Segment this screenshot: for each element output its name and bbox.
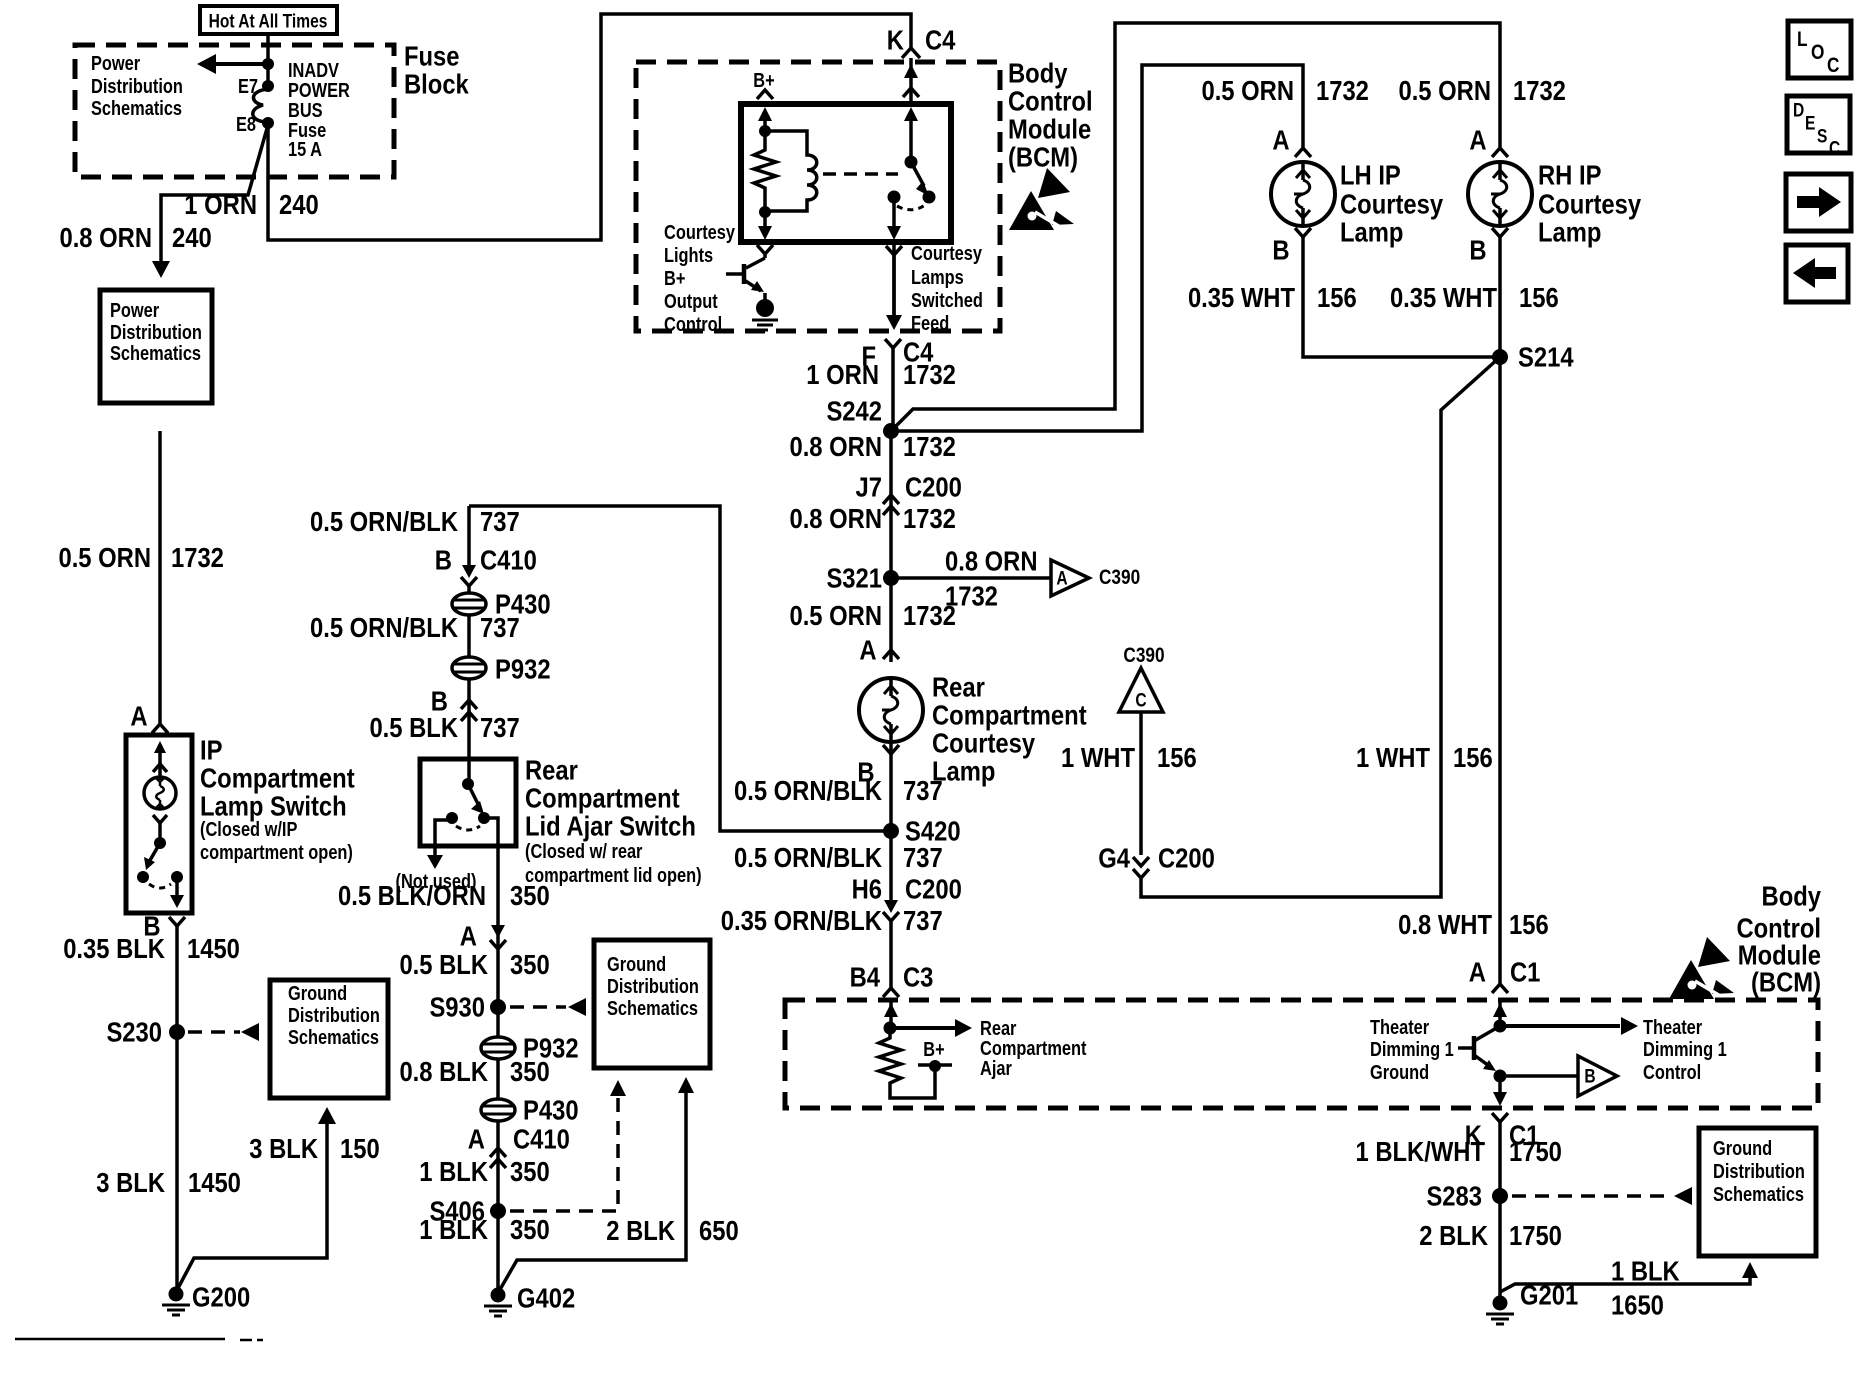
- BCM dashed box (bottom): [785, 1000, 1818, 1108]
- svg-text:C1: C1: [1510, 956, 1540, 988]
- connector B (RH lamp): [1469, 228, 1508, 266]
- svg-text:1732: 1732: [1316, 74, 1369, 106]
- svg-text:1 BLK: 1 BLK: [419, 1213, 488, 1245]
- svg-text:0.5 ORN/BLK: 0.5 ORN/BLK: [310, 505, 458, 537]
- svg-text:3 BLK: 3 BLK: [249, 1132, 318, 1164]
- svg-text:Ground: Ground: [1713, 1137, 1772, 1160]
- wire from Hot At All Times box down to fuse terminal E7: [266, 34, 270, 86]
- node S420: [883, 815, 961, 847]
- relay coil supply wire: [758, 107, 772, 137]
- svg-text:E8: E8: [236, 113, 256, 136]
- svg-text:B+: B+: [923, 1038, 944, 1061]
- wire 0.8 ORN 1732 S242 to J7: [889, 431, 893, 578]
- wire lid switch output: [484, 818, 498, 1007]
- svg-text:C: C: [1135, 689, 1147, 711]
- svg-text:0.5 BLK: 0.5 BLK: [369, 711, 458, 743]
- svg-text:Hot At All Times: Hot At All Times: [209, 10, 328, 32]
- svg-text:0.5 BLK/ORN: 0.5 BLK/ORN: [338, 879, 486, 911]
- svg-text:C390: C390: [1123, 645, 1164, 668]
- svg-text:1 BLK: 1 BLK: [1611, 1255, 1680, 1287]
- label IP Compartment Lamp Switch: [200, 734, 355, 864]
- dashed ref S230 to ground distribution: [188, 1023, 259, 1041]
- label Rear Compartment Courtesy Lamp: [932, 671, 1087, 787]
- node S321: [826, 562, 899, 594]
- svg-text:B: B: [1584, 1065, 1595, 1087]
- button LOC: [1788, 21, 1851, 78]
- svg-text:650: 650: [699, 1214, 739, 1246]
- svg-text:Theater: Theater: [1643, 1016, 1702, 1039]
- svg-text:P430: P430: [523, 1094, 579, 1126]
- svg-text:Lid Ajar Switch: Lid Ajar Switch: [525, 810, 696, 842]
- svg-text:737: 737: [903, 841, 943, 873]
- svg-text:S283: S283: [1426, 1180, 1482, 1212]
- svg-text:B+: B+: [664, 267, 685, 290]
- svg-text:compartment open): compartment open): [200, 841, 353, 864]
- node S283: [1426, 1180, 1508, 1212]
- connector K C4: [887, 24, 956, 58]
- node E7: [238, 75, 274, 98]
- svg-text:350: 350: [510, 1155, 550, 1187]
- svg-text:0.35 WHT: 0.35 WHT: [1188, 281, 1295, 313]
- svg-text:B+: B+: [753, 69, 774, 92]
- node S406: [429, 1195, 506, 1227]
- wire 1 BLK 1650: [1500, 1262, 1758, 1292]
- svg-text:Power: Power: [110, 299, 159, 322]
- relay switch blade: [911, 162, 936, 204]
- button next arrow: [1786, 174, 1851, 231]
- svg-text:G4: G4: [1098, 842, 1130, 874]
- node S242: [826, 395, 899, 439]
- label Courtesy Lights B+ Output Control: [664, 221, 736, 336]
- svg-text:A: A: [1469, 124, 1486, 156]
- connector A (LH lamp): [1272, 124, 1311, 157]
- ground G402: [484, 1282, 575, 1316]
- box Ground Distribution Schematics (right): [1699, 1128, 1816, 1256]
- dashed ref S930 to ground distribution: [510, 998, 586, 1016]
- wire LH lamp B to S214: [1303, 237, 1500, 357]
- IP switch contacts: [137, 815, 184, 908]
- wire relay switched output segment: [892, 242, 896, 318]
- svg-text:Schematics: Schematics: [110, 342, 201, 365]
- label Body Control Module (BCM) (bottom right): [1736, 880, 1821, 998]
- note Power Distribution Schematics (in fuse block): [91, 52, 183, 120]
- svg-text:Schematics: Schematics: [607, 997, 698, 1020]
- node E8: [236, 113, 274, 136]
- wire 1 ORN 240 from fuse E8 to BCM connector C4 pin K: [268, 14, 911, 240]
- connector B (IP lamp switch): [143, 910, 185, 1032]
- svg-text:1732: 1732: [903, 502, 956, 534]
- button prev arrow: [1786, 245, 1848, 302]
- svg-text:1 BLK/WHT: 1 BLK/WHT: [1356, 1135, 1486, 1167]
- svg-text:156: 156: [1317, 281, 1357, 313]
- wire switched feed to connector F C4: [886, 246, 902, 330]
- wire 1 WHT 156 from C390 to G4 C200: [1139, 712, 1143, 855]
- connector A (RH lamp): [1469, 124, 1508, 157]
- label INADV POWER BUS Fuse 15 A: [288, 59, 350, 161]
- node S930: [429, 991, 506, 1023]
- svg-text:0.8 BLK: 0.8 BLK: [399, 1055, 488, 1087]
- wire 1 BLK 350 to G402: [496, 1211, 500, 1295]
- svg-text:A: A: [130, 700, 147, 732]
- resistor (rear ajar pull-up): [879, 1028, 935, 1098]
- svg-text:C4: C4: [925, 24, 956, 56]
- svg-text:S930: S930: [429, 991, 485, 1023]
- svg-text:1450: 1450: [188, 1166, 241, 1198]
- transistor Q output control: [726, 245, 778, 330]
- svg-text:S: S: [1817, 125, 1827, 147]
- connector A (rear lamp): [859, 578, 899, 666]
- svg-text:G201: G201: [1520, 1279, 1578, 1311]
- svg-text:1750: 1750: [1509, 1219, 1562, 1251]
- svg-text:Distribution: Distribution: [110, 321, 202, 344]
- relay coil lower node: [758, 206, 772, 240]
- svg-text:Schematics: Schematics: [1713, 1183, 1804, 1206]
- svg-text:0.5 ORN: 0.5 ORN: [58, 541, 151, 573]
- svg-text:1732: 1732: [903, 358, 956, 390]
- wire S242 to LH IP courtesy lamp (0.5 ORN 1732): [891, 65, 1303, 431]
- svg-text:0.35 ORN/BLK: 0.35 ORN/BLK: [721, 904, 882, 936]
- svg-text:156: 156: [1453, 741, 1493, 773]
- svg-text:B4: B4: [850, 961, 881, 993]
- svg-text:0.8 ORN: 0.8 ORN: [945, 545, 1038, 577]
- lamp RH IP Courtesy Lamp: [1468, 162, 1532, 226]
- arrow Rear Compartment Ajar: [890, 1019, 972, 1037]
- svg-text:C: C: [1829, 137, 1841, 159]
- svg-text:3 BLK: 3 BLK: [96, 1166, 165, 1198]
- svg-text:15 A: 15 A: [288, 138, 322, 161]
- svg-text:156: 156: [1157, 741, 1197, 773]
- dashed ref S406 to ground distribution: [510, 1080, 626, 1211]
- svg-text:350: 350: [510, 1213, 550, 1245]
- svg-text:1732: 1732: [171, 541, 224, 573]
- svg-text:B: B: [1469, 234, 1486, 266]
- svg-text:156: 156: [1509, 908, 1549, 940]
- svg-text:240: 240: [279, 188, 319, 220]
- svg-text:2 BLK: 2 BLK: [1419, 1219, 1488, 1251]
- node theater dimming: [1494, 1020, 1507, 1033]
- box Power Distribution Schematics: [100, 290, 212, 403]
- svg-text:G200: G200: [192, 1281, 250, 1313]
- relay switched output: [887, 197, 901, 240]
- connector B4 C3: [850, 961, 934, 997]
- relay resistor: [754, 131, 776, 212]
- svg-text:A: A: [468, 1123, 485, 1155]
- grommet P932: [452, 615, 551, 685]
- svg-text:S214: S214: [1518, 341, 1574, 373]
- label Courtesy Lamps Switched Feed: [911, 242, 983, 335]
- svg-text:Control: Control: [1643, 1061, 1701, 1084]
- svg-text:Dimming 1: Dimming 1: [1643, 1038, 1727, 1061]
- connector ref triangle A C390: [1051, 560, 1140, 596]
- svg-text:O: O: [1811, 42, 1824, 65]
- svg-text:Power: Power: [91, 52, 140, 75]
- svg-text:Control: Control: [664, 313, 722, 336]
- label 0.8 ORN / 1732: [945, 545, 1038, 612]
- svg-text:Ground: Ground: [1370, 1061, 1429, 1084]
- svg-text:1 ORN: 1 ORN: [806, 358, 879, 390]
- switch box Rear Compartment Lid Ajar Switch: [420, 759, 516, 846]
- svg-text:S242: S242: [826, 395, 882, 427]
- connector B (rear lamp): [857, 742, 899, 831]
- svg-text:(BCM): (BCM): [1751, 966, 1821, 998]
- svg-text:0.5 ORN/BLK: 0.5 ORN/BLK: [734, 774, 882, 806]
- svg-text:C200: C200: [905, 873, 962, 905]
- label 1 BLK 1650: [1611, 1255, 1680, 1321]
- label Fuse Block: [404, 40, 469, 100]
- wire 1 WHT 156 from G4 to S214: [1141, 357, 1500, 897]
- svg-text:H6: H6: [852, 873, 882, 905]
- connector F C4: [861, 336, 933, 431]
- svg-text:Distribution: Distribution: [607, 975, 699, 998]
- switch box IP Compartment Lamp Switch: [126, 735, 192, 913]
- svg-text:Lamp: Lamp: [1538, 216, 1601, 248]
- svg-text:A: A: [1272, 124, 1289, 156]
- wire 2 BLK 1750 to G201: [1498, 1196, 1502, 1303]
- connector B C410: [435, 506, 537, 586]
- svg-text:1732: 1732: [903, 430, 956, 462]
- svg-text:S230: S230: [106, 1016, 162, 1048]
- svg-text:C410: C410: [480, 544, 537, 576]
- wire 0.5 ORN 1732 left branch: [158, 431, 162, 723]
- wire 0.5 ORN/BLK 737 from lid switch loop to S420: [469, 506, 891, 831]
- svg-text:0.5 BLK: 0.5 BLK: [399, 948, 488, 980]
- relay coil: [765, 131, 817, 211]
- svg-text:1732: 1732: [903, 599, 956, 631]
- svg-text:156: 156: [1519, 281, 1559, 313]
- svg-text:Distribution: Distribution: [91, 75, 183, 98]
- grommet P932 (lower): [481, 1007, 579, 1064]
- svg-text:1450: 1450: [187, 932, 240, 964]
- svg-text:0.8 ORN: 0.8 ORN: [789, 502, 882, 534]
- arrow Theater Dimming 1 Control: [1500, 1017, 1638, 1035]
- lamp LH IP Courtesy Lamp: [1271, 162, 1335, 226]
- svg-text:1750: 1750: [1509, 1135, 1562, 1167]
- svg-text:A: A: [1056, 567, 1068, 589]
- svg-text:C200: C200: [905, 471, 962, 503]
- svg-text:(BCM): (BCM): [1008, 141, 1078, 173]
- wire 2 BLK 650: [498, 1077, 694, 1293]
- svg-text:Block: Block: [404, 68, 469, 100]
- button DESC: [1787, 96, 1850, 159]
- ESD symbol (bottom): [1669, 937, 1734, 999]
- wire B4 into BCM: [884, 998, 898, 1028]
- svg-text:Schematics: Schematics: [288, 1026, 379, 1049]
- connector B (LH lamp): [1272, 228, 1311, 266]
- svg-text:RH IP: RH IP: [1538, 159, 1601, 191]
- relay switch feed: [904, 107, 918, 169]
- label Rear Compartment Ajar: [980, 1017, 1086, 1080]
- Body Control Module (BCM) dashed box: [636, 62, 1000, 331]
- box Ground Distribution Schematics (middle): [594, 940, 710, 1068]
- dashed ref S283 to ground distribution: [1512, 1187, 1692, 1205]
- svg-text:0.5 ORN: 0.5 ORN: [1398, 74, 1491, 106]
- svg-text:0.5 ORN/BLK: 0.5 ORN/BLK: [734, 841, 882, 873]
- svg-text:L: L: [1797, 29, 1808, 52]
- svg-text:Ground: Ground: [607, 953, 666, 976]
- svg-text:0.5 ORN: 0.5 ORN: [789, 599, 882, 631]
- svg-text:2 BLK: 2 BLK: [606, 1214, 675, 1246]
- label RH IP Courtesy Lamp: [1538, 159, 1642, 248]
- connector G4 C200: [1098, 842, 1215, 878]
- ESD symbol: [1009, 168, 1074, 230]
- svg-text:LH IP: LH IP: [1340, 159, 1401, 191]
- svg-text:C: C: [1827, 55, 1840, 78]
- node S214: [1492, 341, 1574, 373]
- svg-text:(Closed w/ rear: (Closed w/ rear: [525, 840, 642, 863]
- connector B (lid switch): [431, 679, 477, 759]
- wire 0.8 ORN 240 branch to Power Distribution Schematics: [152, 125, 268, 278]
- svg-text:(Closed w/IP: (Closed w/IP: [200, 818, 297, 841]
- fuse INADV POWER BUS 15A: [253, 89, 268, 122]
- label Rear Compartment Lid Ajar Switch: [525, 754, 702, 887]
- ground G200: [162, 1281, 250, 1315]
- connector A (below lid switch): [460, 920, 506, 952]
- box Ground Distribution Schematics (left): [270, 980, 388, 1098]
- svg-text:Output: Output: [664, 290, 718, 313]
- svg-text:A: A: [1469, 956, 1486, 988]
- svg-text:Courtesy: Courtesy: [664, 221, 736, 244]
- svg-text:Distribution: Distribution: [1713, 1160, 1805, 1183]
- svg-text:Lamps: Lamps: [911, 266, 964, 289]
- svg-text:Lights: Lights: [664, 244, 713, 267]
- wire S321 branch to C390 pin A: [891, 576, 1051, 580]
- IP switch lamp: [144, 741, 176, 809]
- svg-text:150: 150: [340, 1132, 380, 1164]
- connector ref triangle B: [1500, 1056, 1617, 1096]
- svg-text:737: 737: [480, 611, 520, 643]
- svg-text:B: B: [435, 544, 452, 576]
- svg-text:0.5 ORN: 0.5 ORN: [1201, 74, 1294, 106]
- svg-text:Body: Body: [1762, 880, 1822, 912]
- svg-text:Courtesy: Courtesy: [911, 242, 983, 265]
- wire S242 to RH IP courtesy lamp (0.5 ORN 1732): [891, 23, 1500, 431]
- relay switch contact: [888, 191, 926, 210]
- lamp Rear Compartment Courtesy Lamp: [859, 678, 923, 742]
- svg-text:K: K: [887, 24, 904, 56]
- wire theater dimming output to K C1: [1493, 1076, 1507, 1106]
- label Theater Dimming 1 Ground: [1370, 1016, 1454, 1084]
- svg-text:1650: 1650: [1611, 1289, 1664, 1321]
- ground G201: [1486, 1279, 1578, 1324]
- wire K C4 into relay: [903, 58, 919, 104]
- wire 3 BLK 150 from ground distribution box: [176, 1107, 336, 1292]
- svg-text:Switched: Switched: [911, 289, 983, 312]
- relay box: [741, 104, 951, 242]
- connector A C1: [1469, 956, 1541, 993]
- label LH IP Courtesy Lamp: [1340, 159, 1444, 248]
- label B+: [753, 69, 774, 99]
- label Theater Dimming 1 Control: [1643, 1016, 1727, 1084]
- svg-text:350: 350: [510, 948, 550, 980]
- svg-text:1732: 1732: [1513, 74, 1566, 106]
- label Body Control Module (BCM): [1008, 57, 1093, 173]
- svg-text:737: 737: [480, 505, 520, 537]
- grommet P430: [452, 586, 551, 620]
- bottom margin line: [15, 1339, 263, 1340]
- svg-text:Lamp: Lamp: [1340, 216, 1403, 248]
- svg-text:240: 240: [172, 221, 212, 253]
- svg-text:1 WHT: 1 WHT: [1356, 741, 1430, 773]
- svg-text:1 BLK: 1 BLK: [419, 1155, 488, 1187]
- fuse block dashed box: [75, 45, 394, 177]
- connector ref triangle C C390: [1119, 645, 1165, 712]
- svg-text:P932: P932: [495, 653, 551, 685]
- svg-text:0.8 ORN: 0.8 ORN: [789, 430, 882, 462]
- svg-text:1 WHT: 1 WHT: [1061, 741, 1135, 773]
- svg-text:350: 350: [510, 1055, 550, 1087]
- svg-text:A: A: [859, 634, 876, 666]
- connector A C410: [468, 1121, 570, 1211]
- svg-text:compartment lid open): compartment lid open): [525, 864, 702, 887]
- svg-text:J7: J7: [856, 471, 882, 503]
- svg-text:Ground: Ground: [288, 982, 347, 1005]
- connector A (IP lamp switch): [130, 700, 168, 733]
- node S230: [106, 1016, 185, 1048]
- svg-text:350: 350: [510, 879, 550, 911]
- grommet P430 (lower): [481, 1059, 579, 1126]
- svg-text:0.35 WHT: 0.35 WHT: [1390, 281, 1497, 313]
- svg-text:S321: S321: [826, 562, 882, 594]
- wire RH lamp B down through S214: [1498, 237, 1502, 985]
- svg-text:1 ORN: 1 ORN: [184, 188, 257, 220]
- svg-text:B: B: [1272, 234, 1289, 266]
- B+ terminal: [918, 1038, 952, 1072]
- svg-text:C390: C390: [1099, 567, 1140, 590]
- svg-text:G402: G402: [517, 1282, 575, 1314]
- arrow to Power Distribution Schematics: [197, 54, 274, 74]
- svg-text:E: E: [1805, 112, 1815, 134]
- svg-text:737: 737: [903, 904, 943, 936]
- svg-text:Schematics: Schematics: [91, 97, 182, 120]
- connector J7 C200: [856, 471, 962, 515]
- svg-text:Ajar: Ajar: [980, 1057, 1012, 1080]
- relay mechanical link (dashed): [823, 172, 898, 176]
- svg-text:Distribution: Distribution: [288, 1004, 380, 1027]
- svg-text:0.8 ORN: 0.8 ORN: [59, 221, 152, 253]
- svg-text:Theater: Theater: [1370, 1016, 1429, 1039]
- svg-text:C410: C410: [513, 1123, 570, 1155]
- svg-text:Feed: Feed: [911, 312, 949, 335]
- svg-text:D: D: [1793, 99, 1804, 121]
- svg-text:737: 737: [480, 711, 520, 743]
- transistor theater dimming: [1458, 1026, 1507, 1083]
- svg-text:C200: C200: [1158, 842, 1215, 874]
- wire A C1 into BCM: [1493, 998, 1507, 1026]
- svg-text:Dimming 1: Dimming 1: [1370, 1038, 1454, 1061]
- svg-text:0.8 WHT: 0.8 WHT: [1398, 908, 1492, 940]
- connector K C1: [1465, 1113, 1540, 1196]
- svg-text:0.5 ORN/BLK: 0.5 ORN/BLK: [310, 611, 458, 643]
- lid switch contacts: [427, 759, 490, 869]
- wire 3 BLK 1450: [175, 1032, 179, 1294]
- connector H6 C200: [852, 831, 962, 988]
- label "Hot At All Times" box: [200, 6, 337, 34]
- node rear ajar input: [884, 1022, 897, 1035]
- svg-text:C3: C3: [903, 961, 933, 993]
- svg-text:737: 737: [903, 774, 943, 806]
- svg-text:0.35 BLK: 0.35 BLK: [63, 932, 165, 964]
